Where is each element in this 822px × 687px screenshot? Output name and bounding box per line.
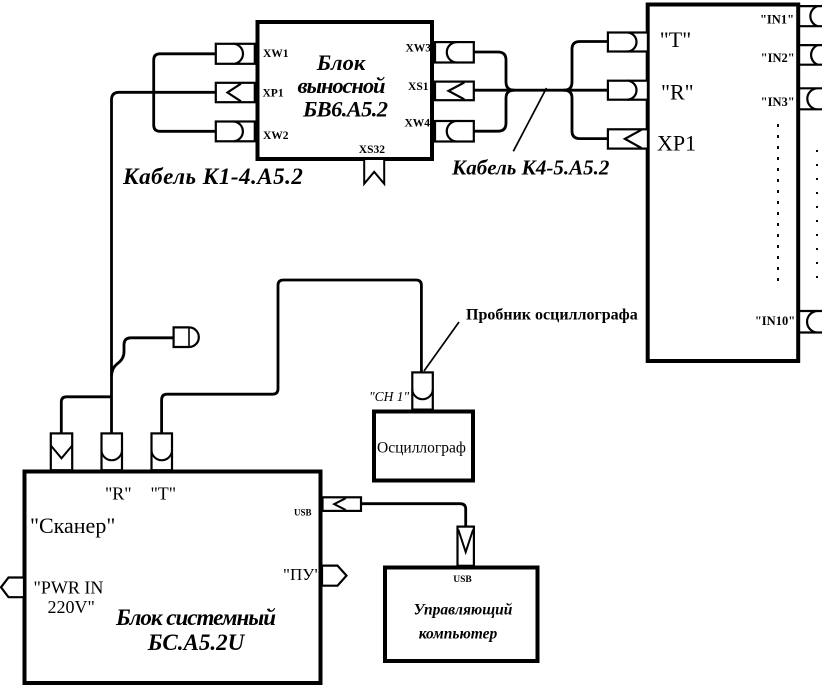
svg-text:USB: USB <box>453 575 472 585</box>
svg-text:БС.А5.2U: БС.А5.2U <box>147 630 246 655</box>
svg-text:Осциллограф: Осциллограф <box>377 440 466 457</box>
svg-text:XS1: XS1 <box>408 81 429 93</box>
svg-text:XS32: XS32 <box>359 144 385 156</box>
svg-text:220V": 220V" <box>48 597 95 617</box>
svg-text:"IN3": "IN3" <box>761 95 795 109</box>
svg-text:"PWR IN: "PWR IN <box>34 578 104 598</box>
svg-text:XW2: XW2 <box>263 130 289 142</box>
svg-text:XW1: XW1 <box>263 48 289 60</box>
svg-text:"IN1": "IN1" <box>760 13 794 27</box>
svg-text:Блок: Блок <box>316 50 366 75</box>
svg-text:БВ6.А5.2: БВ6.А5.2 <box>302 97 388 122</box>
svg-text:"IN2": "IN2" <box>761 51 795 65</box>
svg-text:выносной: выносной <box>298 73 386 98</box>
svg-text:"R": "R" <box>105 484 132 504</box>
svg-text:Управляющий: Управляющий <box>414 602 513 619</box>
svg-text:"IN10": "IN10" <box>755 314 795 328</box>
svg-text:"CH 1": "CH 1" <box>369 389 410 404</box>
svg-text:Кабель К1-4.А5.2: Кабель К1-4.А5.2 <box>122 164 303 189</box>
svg-text:компьютер: компьютер <box>419 626 498 643</box>
svg-text:Кабель К4-5.А5.2: Кабель К4-5.А5.2 <box>451 156 610 180</box>
svg-text:XW4: XW4 <box>404 118 430 130</box>
svg-text:Блок системный: Блок системный <box>115 605 276 630</box>
svg-text:"T": "T" <box>150 484 176 504</box>
svg-text:"Сканер": "Сканер" <box>30 513 115 538</box>
svg-text:Пробник осциллографа: Пробник осциллографа <box>466 307 638 324</box>
svg-text:USB: USB <box>294 508 312 518</box>
svg-text:"ПУ": "ПУ" <box>283 565 321 584</box>
svg-text:"R": "R" <box>661 80 694 105</box>
svg-text:XP1: XP1 <box>657 131 696 156</box>
svg-text:"T": "T" <box>660 27 691 52</box>
svg-text:XP1: XP1 <box>263 88 284 100</box>
svg-text:XW3: XW3 <box>405 43 431 55</box>
